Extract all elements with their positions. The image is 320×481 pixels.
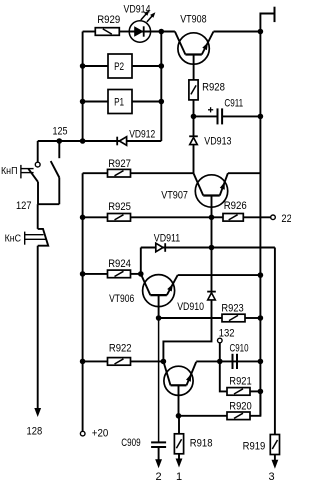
- svg-text:VD912: VD912: [129, 128, 155, 140]
- wire: [194, 115, 218, 117]
- wire bus: [160, 32, 162, 142]
- svg-text:R928: R928: [202, 81, 225, 93]
- resistor R924: [108, 270, 131, 278]
- wire: [37, 141, 39, 162]
- LED VD914: [129, 21, 150, 42]
- wire: [119, 31, 129, 33]
- svg-text:VT906: VT906: [109, 293, 134, 305]
- svg-text:R920: R920: [229, 400, 251, 412]
- resistor R926: [223, 214, 243, 222]
- svg-text:R919: R919: [243, 440, 266, 452]
- capacitor C909: [151, 441, 166, 443]
- contact KnP: [35, 162, 40, 167]
- svg-text:VD914: VD914: [124, 3, 151, 15]
- junction: [159, 99, 165, 105]
- junction: [258, 114, 264, 120]
- svg-text:127: 127: [16, 200, 32, 212]
- wire: [196, 360, 260, 362]
- wire: [212, 247, 275, 249]
- svg-text:VT907: VT907: [161, 190, 188, 202]
- svg-text:R918: R918: [190, 438, 213, 450]
- wire bus: [82, 173, 84, 431]
- svg-text:125: 125: [53, 126, 68, 138]
- wire: [131, 216, 212, 218]
- svg-text:R929: R929: [97, 14, 120, 26]
- svg-text:3: 3: [268, 471, 274, 481]
- junction: [258, 389, 264, 395]
- diode VD911: [141, 247, 212, 249]
- svg-text:VD911: VD911: [154, 233, 180, 245]
- wire: [158, 318, 160, 442]
- junction: [159, 63, 165, 69]
- diode VD913: [193, 116, 195, 136]
- wire: [222, 115, 260, 117]
- svg-text:VD913: VD913: [204, 135, 231, 147]
- junction: [258, 359, 264, 365]
- svg-text:C911: C911: [224, 98, 243, 110]
- resistor R925: [108, 214, 131, 222]
- diode VD912: [116, 137, 118, 146]
- svg-text:КнП: КнП: [1, 166, 18, 177]
- svg-text:R927: R927: [108, 158, 131, 170]
- wire: [140, 248, 142, 274]
- resistor R920: [227, 412, 250, 420]
- svg-text:R923: R923: [221, 303, 243, 315]
- wire: [245, 317, 260, 319]
- resistor R927: [108, 169, 131, 177]
- svg-text:C909: C909: [121, 437, 140, 449]
- switch KnP blade: [28, 169, 38, 182]
- wire: [178, 274, 261, 276]
- wire: [178, 416, 180, 434]
- svg-text:R921: R921: [229, 376, 251, 388]
- svg-text:P2: P2: [114, 61, 124, 73]
- wire: [214, 31, 261, 33]
- switch KnS blade: [38, 229, 49, 246]
- wire stub: [58, 141, 60, 158]
- svg-text:2: 2: [156, 471, 162, 481]
- wire bus: [259, 32, 261, 416]
- junction: [80, 271, 86, 277]
- wire: [179, 415, 228, 417]
- wire: [37, 182, 39, 204]
- capacitor C910: [232, 354, 234, 369]
- svg-text:22: 22: [281, 213, 291, 225]
- wire: [163, 318, 211, 361]
- wire: [131, 360, 164, 362]
- transistor VT907: [195, 175, 227, 207]
- junction: [80, 99, 86, 105]
- wire: [250, 390, 260, 392]
- junction: [209, 245, 215, 251]
- svg-text:R924: R924: [108, 258, 131, 270]
- wire terminal 128: [37, 246, 39, 414]
- junction: [80, 215, 86, 221]
- junction: [191, 114, 197, 120]
- resistor R919: [270, 435, 279, 455]
- svg-text:КнС: КнС: [5, 233, 22, 244]
- wire: [211, 217, 213, 291]
- junction: [161, 359, 167, 365]
- wire: [38, 140, 162, 142]
- svg-text:VT908: VT908: [180, 14, 206, 26]
- junction: [138, 271, 144, 277]
- block P2: [108, 54, 132, 78]
- resistor R921: [227, 388, 250, 396]
- block P1: [108, 90, 132, 114]
- wire: [83, 360, 108, 362]
- svg-text:VD910: VD910: [177, 301, 204, 313]
- junction: [217, 359, 223, 365]
- junction: [156, 315, 162, 321]
- wire: [212, 216, 224, 218]
- resistor R918: [174, 434, 183, 454]
- junction: [258, 272, 264, 278]
- svg-text:C910: C910: [230, 342, 249, 354]
- terminal 3: [274, 455, 276, 466]
- terminal 1: [178, 454, 180, 465]
- wire: [132, 101, 161, 103]
- wire: [219, 343, 221, 362]
- wire outer: [274, 248, 276, 435]
- capacitor C911: [217, 108, 219, 124]
- svg-text:R926: R926: [224, 200, 247, 212]
- wire: [193, 100, 195, 117]
- wire: [250, 391, 260, 415]
- svg-text:P1: P1: [114, 96, 124, 108]
- chassis tab: [260, 14, 274, 32]
- resistor R928: [189, 80, 198, 100]
- junction: [80, 359, 86, 365]
- terminal +20: [80, 431, 85, 436]
- transistor VT908: [178, 33, 209, 64]
- resistor R923: [222, 314, 245, 322]
- terminal 2: [158, 447, 160, 465]
- junction: [80, 63, 86, 69]
- switch blade: [51, 161, 60, 177]
- wire: [132, 65, 161, 67]
- wire: [83, 31, 96, 33]
- junction: [258, 315, 264, 321]
- terminal 22: [271, 215, 276, 220]
- switch KnP actuator: [20, 165, 22, 179]
- junction: [258, 29, 264, 35]
- transistor (no designator shown): [164, 366, 193, 395]
- junction: [57, 138, 63, 144]
- svg-text:132: 132: [219, 327, 235, 339]
- wire: [159, 317, 222, 319]
- wire: [37, 204, 39, 229]
- junction: [80, 138, 86, 144]
- wire: [83, 101, 108, 103]
- svg-text:128: 128: [27, 425, 43, 437]
- resistor R929: [95, 28, 119, 36]
- wire: [83, 172, 108, 174]
- switch KnS actuator: [24, 232, 26, 245]
- wire: [83, 273, 108, 275]
- junction: [209, 215, 215, 221]
- diode VD910: [207, 291, 216, 293]
- wire: [220, 361, 227, 391]
- svg-text:+20: +20: [92, 428, 109, 440]
- wire: [58, 178, 60, 205]
- svg-text:R925: R925: [108, 201, 131, 213]
- wire: [243, 216, 270, 218]
- junction: [176, 413, 182, 419]
- terminal 132: [218, 338, 223, 343]
- transistor VT906: [143, 275, 175, 307]
- wire: [83, 65, 108, 67]
- wire: [151, 31, 175, 33]
- wire bus: [82, 32, 84, 142]
- junction: [159, 29, 165, 35]
- wire: [131, 172, 194, 174]
- resistor R922: [108, 358, 131, 366]
- wire: [83, 216, 108, 218]
- wire: [131, 273, 141, 275]
- svg-text:R922: R922: [109, 342, 132, 354]
- wire: [228, 172, 261, 174]
- svg-text:1: 1: [176, 471, 182, 481]
